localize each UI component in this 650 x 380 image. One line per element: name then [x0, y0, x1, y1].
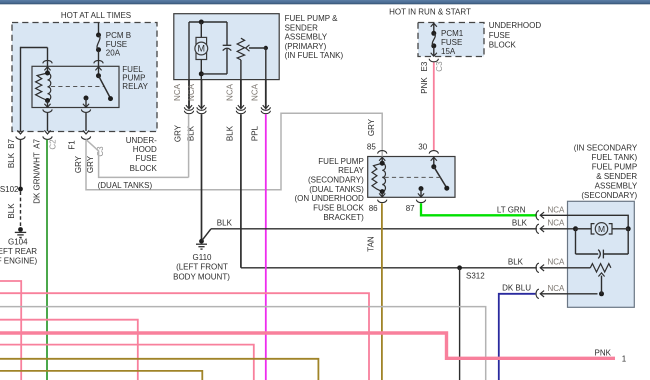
- svg-text:C2: C2: [49, 139, 58, 150]
- svg-text:G104: G104: [8, 237, 28, 246]
- svg-text:FUSE BLOCK: FUSE BLOCK: [313, 204, 364, 213]
- svg-text:SENDER: SENDER: [285, 23, 319, 32]
- svg-text:NCA: NCA: [187, 83, 196, 101]
- svg-text:FUEL TANK): FUEL TANK): [592, 153, 638, 162]
- svg-text:85: 85: [367, 143, 376, 152]
- svg-text:F1: F1: [68, 140, 77, 150]
- svg-text:HOT AT ALL TIMES: HOT AT ALL TIMES: [61, 11, 131, 20]
- svg-text:(ON UNDERHOOD: (ON UNDERHOOD: [294, 194, 364, 203]
- svg-text:(IN FUEL TANK): (IN FUEL TANK): [285, 51, 344, 60]
- svg-text:1: 1: [622, 354, 627, 363]
- svg-text:NCA: NCA: [548, 258, 566, 267]
- svg-text:15A: 15A: [441, 47, 456, 56]
- svg-text:BLK: BLK: [226, 125, 235, 141]
- svg-text:FUSE: FUSE: [489, 31, 510, 40]
- svg-text:BLK: BLK: [7, 152, 16, 168]
- svg-text:NCA: NCA: [173, 83, 182, 101]
- svg-text:20A: 20A: [106, 49, 121, 58]
- svg-text:30: 30: [418, 143, 427, 152]
- svg-text:BLOCK: BLOCK: [489, 40, 517, 49]
- svg-text:S102: S102: [0, 185, 19, 194]
- svg-text:PNK: PNK: [595, 349, 612, 358]
- svg-text:BLK: BLK: [508, 257, 524, 266]
- svg-text:(LEFT FRONT: (LEFT FRONT: [176, 263, 228, 272]
- svg-text:C3: C3: [435, 61, 444, 72]
- svg-text:NCA: NCA: [251, 83, 260, 101]
- svg-text:86: 86: [369, 204, 378, 213]
- svg-text:E3: E3: [420, 61, 429, 71]
- svg-text:(LEFT REAR: (LEFT REAR: [0, 247, 37, 256]
- svg-text:PNK: PNK: [420, 77, 429, 94]
- svg-text:NCA: NCA: [548, 219, 566, 228]
- svg-text:(DUAL TANKS): (DUAL TANKS): [98, 181, 153, 190]
- svg-text:HOT IN RUN & START: HOT IN RUN & START: [389, 7, 471, 16]
- svg-text:NCA: NCA: [548, 284, 566, 293]
- svg-text:DK BLU: DK BLU: [502, 284, 531, 293]
- svg-text:UNDERHOOD: UNDERHOOD: [489, 21, 542, 30]
- svg-text:G110: G110: [193, 253, 213, 262]
- svg-text:GRY: GRY: [173, 124, 182, 142]
- svg-text:NCA: NCA: [226, 83, 235, 101]
- svg-text:BODY MOUNT): BODY MOUNT): [173, 272, 230, 281]
- svg-text:GRY: GRY: [74, 155, 83, 173]
- svg-text:PPL: PPL: [250, 125, 259, 141]
- svg-text:FUEL PUMP: FUEL PUMP: [592, 162, 638, 171]
- svg-text:RELAY: RELAY: [122, 82, 148, 91]
- svg-text:UNDER-: UNDER-: [126, 136, 157, 145]
- svg-text:LT GRN: LT GRN: [497, 205, 526, 214]
- svg-text:S312: S312: [466, 271, 485, 280]
- svg-text:ASSEMBLY: ASSEMBLY: [595, 181, 638, 190]
- svg-text:HOOD: HOOD: [133, 145, 157, 154]
- svg-text:M: M: [198, 44, 206, 54]
- svg-text:FUEL PUMP: FUEL PUMP: [318, 157, 364, 166]
- svg-text:TAN: TAN: [367, 236, 376, 252]
- svg-text:BLK: BLK: [7, 203, 16, 219]
- svg-text:GRY: GRY: [367, 118, 376, 136]
- svg-text:FUSE: FUSE: [135, 154, 156, 163]
- svg-text:PCM B: PCM B: [106, 31, 131, 40]
- svg-text:BRACKET): BRACKET): [323, 213, 364, 222]
- svg-text:B7: B7: [7, 138, 16, 148]
- svg-text:(SECONDARY): (SECONDARY): [581, 191, 637, 200]
- svg-text:BLK: BLK: [512, 218, 528, 227]
- svg-text:FUSE: FUSE: [441, 38, 462, 47]
- svg-text:(SECONDARY): (SECONDARY): [308, 176, 364, 185]
- svg-text:GRY: GRY: [86, 155, 95, 173]
- svg-text:(PRIMARY): (PRIMARY): [285, 42, 327, 51]
- svg-text:& SENDER: & SENDER: [596, 172, 637, 181]
- svg-text:BLK: BLK: [217, 218, 233, 227]
- svg-text:FUSE: FUSE: [106, 40, 127, 49]
- svg-text:OF ENGINE): OF ENGINE): [0, 257, 37, 266]
- svg-text:(DUAL TANKS): (DUAL TANKS): [309, 185, 364, 194]
- svg-text:C3: C3: [96, 146, 105, 157]
- svg-text:(IN SECONDARY: (IN SECONDARY: [574, 143, 638, 152]
- svg-text:RELAY: RELAY: [338, 166, 364, 175]
- svg-text:M: M: [598, 224, 605, 234]
- svg-text:ASSEMBLY: ASSEMBLY: [285, 33, 328, 42]
- svg-text:A7: A7: [33, 138, 42, 148]
- svg-text:PCM1: PCM1: [441, 29, 464, 38]
- svg-text:BLOCK: BLOCK: [130, 164, 158, 173]
- svg-text:NCA: NCA: [548, 206, 566, 215]
- svg-text:FUEL PUMP &: FUEL PUMP &: [285, 14, 339, 23]
- svg-text:DK GRN/WHT: DK GRN/WHT: [33, 152, 42, 204]
- svg-text:87: 87: [406, 204, 415, 213]
